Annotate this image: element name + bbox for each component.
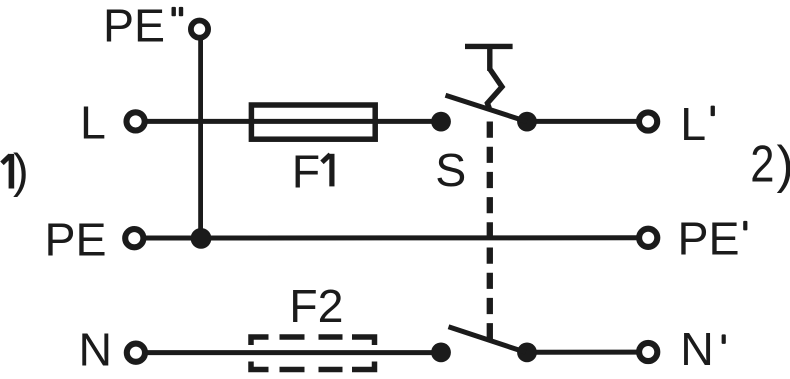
label PE' apostrophe [743,221,747,231]
svg-text:F: F [292,145,320,197]
wire L output [527,119,637,124]
switch S contact left (L row) [431,112,451,132]
terminal N' [639,343,657,361]
label L' apostrophe [711,106,715,117]
wire N input [145,350,441,355]
terminal PE [125,229,143,247]
switch lever (N row) [449,327,527,353]
svg-text:N: N [79,323,113,375]
switch contact left (N row) [431,343,451,363]
svg-text:L: L [80,97,106,149]
svg-text:2: 2 [750,136,774,194]
terminal L [127,112,145,130]
fuse F2 (dashed box) [251,337,375,370]
switch S lever (L row) [446,95,528,121]
svg-text:PE: PE [103,0,165,52]
label PE'' quote marks [172,7,184,16]
switch contact right (N row) [517,343,537,363]
terminal L' [639,112,657,130]
wire PE'' drop [198,38,203,238]
wire N output [527,350,638,355]
label 1) digit one [2,154,11,189]
svg-text:L: L [680,98,706,150]
wire L input [145,119,441,124]
terminal N [127,344,145,362]
switch S actuator T-bar [465,46,513,71]
switch S latch zigzag [487,69,502,108]
mechanical linkage (dashed) [487,122,493,341]
junction PE node [191,228,212,249]
wire PE bus [143,235,638,240]
label N' apostrophe [722,334,726,344]
label F1 digit one [322,154,332,187]
svg-text:PE: PE [678,213,740,265]
svg-text:N: N [680,323,714,375]
fuse F1 [251,105,375,139]
svg-text:PE: PE [45,214,107,266]
terminal PE'' [191,21,208,38]
svg-text:F2: F2 [289,280,343,332]
svg-text:): ) [777,136,790,194]
svg-text:): ) [13,144,29,197]
switch S contact right (L row) [517,112,537,132]
terminal PE' [639,229,657,247]
svg-text:S: S [435,144,466,196]
